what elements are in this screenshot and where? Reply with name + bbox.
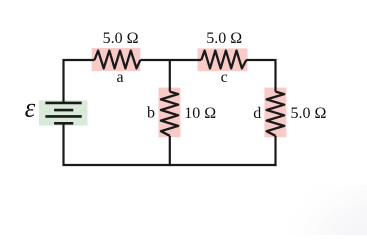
- wire resistor a to node, and node to resistor c: [140, 59, 201, 61]
- battery plate long: [45, 115, 81, 118]
- bottom wire: [62, 123, 276, 166]
- highlight box resistor a: [92, 48, 141, 71]
- resistor R_d 5.0 ohm: [267, 92, 285, 136]
- svg-text:5.0 Ω: 5.0 Ω: [103, 30, 139, 47]
- svg-text:b: b: [147, 105, 155, 122]
- resistor R_c 5.0 ohm: [201, 51, 246, 69]
- wire resistor b to bottom wire: [169, 136, 171, 166]
- resistor R_b 10 ohm: [161, 92, 178, 136]
- svg-text:5.0 Ω: 5.0 Ω: [291, 105, 327, 122]
- highlight box resistor d: [264, 88, 286, 138]
- svg-text:ε: ε: [25, 93, 36, 123]
- wire node to resistor b: [169, 60, 171, 92]
- battery plate short bottom: [54, 122, 73, 125]
- resistor R_a 5.0 ohm: [95, 51, 141, 69]
- battery plate long top: [45, 102, 81, 105]
- highlight box resistor b: [159, 88, 181, 138]
- highlight box battery: [39, 100, 88, 125]
- svg-text:c: c: [221, 69, 228, 86]
- svg-text:a: a: [116, 69, 123, 86]
- wire top-left corner to resistor a: [64, 60, 95, 103]
- wire resistor d to bottom-right corner: [274, 136, 276, 166]
- svg-text:d: d: [253, 105, 261, 122]
- svg-text:5.0 Ω: 5.0 Ω: [206, 30, 242, 47]
- battery plate short: [54, 109, 73, 112]
- svg-text:10 Ω: 10 Ω: [184, 105, 216, 122]
- highlight box resistor c: [198, 48, 248, 71]
- wire resistor c to top-right corner: [246, 60, 275, 92]
